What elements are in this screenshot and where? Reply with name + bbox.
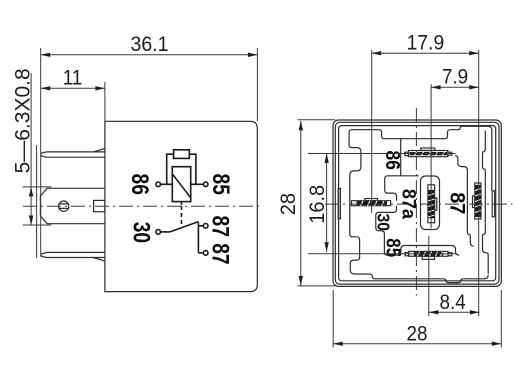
pin 87a slot [428, 185, 435, 223]
right rib [492, 191, 494, 217]
svg-text:8.4: 8.4 [439, 291, 465, 314]
87 channel right wall [483, 131, 489, 274]
wire 30 [161, 231, 171, 233]
dim 36.1 [41, 48, 258, 121]
pin 85 slot stubs [405, 253, 409, 256]
svg-text:11: 11 [63, 67, 83, 90]
flange edge line [36, 145, 38, 258]
terminal 87 lower circle [203, 251, 208, 256]
relay body [105, 121, 257, 291]
base outline top-left tab [349, 130, 488, 283]
pin 85 blade [414, 252, 443, 257]
base outline 30 wall [376, 206, 401, 255]
terminal 30 circle [156, 230, 161, 235]
dim 28 left vertical [298, 120, 336, 286]
terminal 85 circle [203, 182, 208, 187]
housing chamfer top [93, 148, 105, 152]
notch rect [94, 200, 105, 211]
pin 85 slot [409, 251, 448, 256]
svg-text:7.9: 7.9 [442, 66, 468, 89]
switch lever [170, 222, 198, 232]
dim 7.9 [431, 50, 479, 316]
base outline left pocket [385, 176, 419, 201]
svg-text:87: 87 [207, 216, 235, 237]
left rib [338, 189, 340, 219]
center blade (6.3mm) [40, 188, 105, 223]
actuator dashed link [181, 206, 183, 227]
terminal 86 circle [156, 182, 161, 187]
wire 86 [161, 183, 173, 185]
wire 85 [191, 183, 204, 185]
center capsule [421, 176, 440, 230]
pin 86 bump [421, 148, 435, 151]
dim 5-6.3X0.8 [23, 73, 52, 225]
pin 87 slot [475, 183, 481, 219]
base outline top [352, 126, 492, 190]
pin 87 bump [473, 196, 475, 208]
pin 86 slot stubs [405, 152, 409, 156]
terminal 87 upper circle [203, 224, 208, 229]
case line 3 [339, 126, 496, 281]
coil diagonal [172, 174, 190, 198]
centerline left view [23, 205, 263, 207]
svg-text:85: 85 [207, 174, 235, 195]
svg-text:85: 85 [382, 238, 405, 257]
centerline right view horizontal [325, 203, 513, 205]
dim 16.8 [308, 153, 456, 253]
pin 86 slot [408, 151, 447, 157]
pin 87a bump [435, 198, 437, 210]
pin 87 blade [475, 185, 481, 217]
housing chamfer bottom [93, 258, 105, 262]
svg-text:17.9: 17.9 [407, 32, 445, 55]
terminal blade top [41, 152, 105, 157]
85 pocket [401, 246, 460, 256]
87 bus bar [198, 223, 203, 253]
extension line left [40, 48, 42, 256]
svg-text:5—6.3X0.8: 5—6.3X0.8 [12, 68, 35, 173]
svg-text:30: 30 [373, 213, 393, 231]
dim 11 [41, 82, 105, 121]
pin 86 blade [410, 152, 447, 156]
pin 30 slot [352, 201, 391, 206]
dim 28 bottom [333, 290, 501, 348]
svg-text:28: 28 [406, 322, 427, 345]
resistor R [174, 150, 190, 159]
screw hole [59, 201, 69, 211]
centerline right view vertical [415, 108, 417, 296]
svg-text:30: 30 [128, 222, 156, 243]
pin 30 blade [357, 201, 388, 206]
pin 87a blade [428, 190, 434, 218]
terminal blade bottom [41, 252, 105, 257]
svg-text:87: 87 [445, 192, 469, 214]
base outline 86 channel [400, 139, 402, 176]
coil K [172, 167, 190, 202]
svg-text:36.1: 36.1 [131, 33, 169, 56]
svg-text:86: 86 [127, 174, 155, 195]
wire parallel branch [167, 154, 196, 184]
dim 8.4 [429, 236, 480, 316]
pin 30 bump [365, 199, 378, 201]
coil stub [181, 202, 183, 205]
dim 17.9 [372, 50, 479, 213]
pin 85 bump [422, 256, 434, 259]
case line 2 [335, 122, 499, 284]
svg-text:28: 28 [276, 193, 300, 215]
svg-text:16.8: 16.8 [306, 185, 330, 224]
87 channel left wall [455, 156, 474, 247]
svg-text:87: 87 [207, 243, 235, 264]
outer case [333, 120, 501, 286]
